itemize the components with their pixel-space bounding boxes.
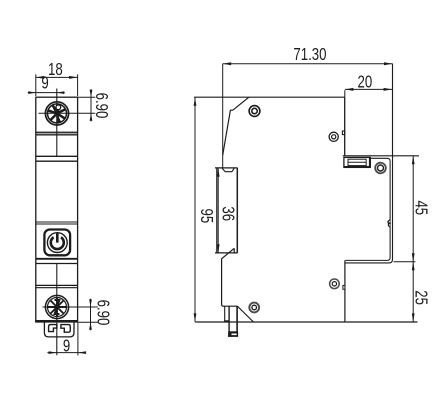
svg-text:95: 95 <box>196 209 215 224</box>
svg-text:9: 9 <box>63 337 70 356</box>
svg-text:6.90: 6.90 <box>93 300 112 326</box>
svg-text:71.30: 71.30 <box>293 45 326 64</box>
svg-text:36: 36 <box>218 206 237 221</box>
svg-text:25: 25 <box>411 290 430 305</box>
svg-text:45: 45 <box>411 200 430 215</box>
svg-text:9: 9 <box>41 74 48 93</box>
svg-text:20: 20 <box>358 73 373 92</box>
svg-text:18: 18 <box>48 61 63 80</box>
svg-text:6.90: 6.90 <box>91 93 110 119</box>
